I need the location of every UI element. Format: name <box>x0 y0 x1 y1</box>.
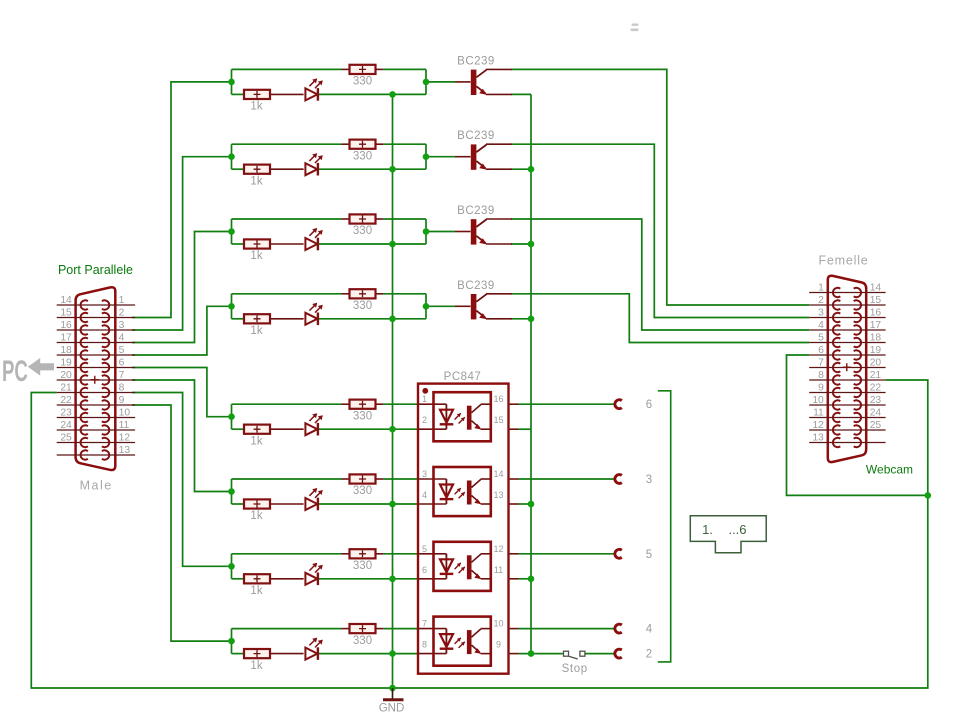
male DB25 separator row 4 <box>57 342 135 344</box>
node GND bus junction row 8 <box>389 650 396 657</box>
svg-text:1k: 1k <box>250 101 262 113</box>
svg-text:19: 19 <box>60 358 72 369</box>
wire row 3 top branch <box>232 218 342 220</box>
svg-text:6: 6 <box>422 565 427 575</box>
wire row 8 top branch right <box>383 628 418 630</box>
svg-text:12: 12 <box>812 420 824 431</box>
wire male pin 6 to row 5 input <box>132 368 232 417</box>
wire Femelle pin 6 link <box>787 355 928 495</box>
wire row 8 resistor 330 left stub <box>342 628 350 630</box>
wire emitter/output bus vertical <box>530 94 532 653</box>
cable bracket <box>658 391 671 662</box>
svg-text:8: 8 <box>818 370 824 381</box>
svg-text:12: 12 <box>493 544 503 554</box>
svg-text:GND: GND <box>379 703 405 715</box>
wire row 2 right junction vertical <box>425 144 427 169</box>
male DB25 separator row 8 <box>57 392 135 394</box>
svg-text:4: 4 <box>646 624 653 636</box>
svg-text:16: 16 <box>870 308 882 319</box>
svg-text:Port Parallele: Port Parallele <box>58 263 133 277</box>
svg-text:330: 330 <box>353 300 372 312</box>
wire row 3 right junction vertical <box>425 219 427 244</box>
LED D7 <box>305 563 322 585</box>
svg-text:7: 7 <box>119 370 125 381</box>
svg-text:PC847: PC847 <box>444 371 482 383</box>
socket terminal 2 <box>615 649 652 661</box>
svg-text:7: 7 <box>422 619 427 629</box>
svg-text:9: 9 <box>818 383 824 394</box>
svg-text:15: 15 <box>60 308 72 319</box>
wire row 2 resistor 330 right stub <box>375 143 383 145</box>
svg-text:14: 14 <box>870 283 882 294</box>
wire Q4 collector to Femelle pin 5 <box>511 294 809 343</box>
svg-text:22: 22 <box>870 383 882 394</box>
wire row 6 bottom branch left <box>232 503 245 505</box>
svg-text:12: 12 <box>119 433 131 444</box>
LED D8 <box>305 638 322 660</box>
wire opto channel 2 pin line bottom (into PC847) <box>418 503 446 505</box>
wire opto channel 4 output bottom stub <box>509 653 519 655</box>
wire row 1 resistor 330 right stub <box>375 68 383 70</box>
wire row 7 top branch right <box>383 553 418 555</box>
svg-text:11: 11 <box>494 565 503 575</box>
femelle DB25 separator row 3 <box>809 317 885 319</box>
wire opto channel 3 pin line top (into PC847) <box>418 553 446 555</box>
wire opto output to socket 6 <box>519 403 616 405</box>
wire row 4 bottom branch left <box>232 318 245 320</box>
resistor 1k row 2 <box>244 165 270 188</box>
wire transistor Q3 base <box>426 231 455 233</box>
wire opto channel 4 pin line bottom (into PC847) <box>418 653 446 655</box>
svg-text:17: 17 <box>870 320 882 331</box>
resistor 330 row 4 <box>350 289 376 312</box>
svg-text:16: 16 <box>60 320 72 331</box>
wire row 7 resistor 330 left stub <box>342 553 350 555</box>
svg-text:3: 3 <box>646 474 652 486</box>
wire row 2 bottom branch right <box>318 168 427 170</box>
wire row 3 bottom branch left <box>232 243 245 245</box>
wire opto channel 1 pin line bottom (into PC847) <box>418 428 446 430</box>
femelle DB25 separator row 11 <box>809 417 885 419</box>
svg-text:25: 25 <box>870 420 882 431</box>
svg-text:BC239: BC239 <box>457 205 495 217</box>
svg-text:6: 6 <box>818 345 824 356</box>
resistor 1k row 8 <box>244 649 270 672</box>
resistor 330 row 7 <box>350 549 376 572</box>
wire row 8 bottom branch left <box>232 653 245 655</box>
wire male pin 7 to row 6 input <box>132 380 232 492</box>
node emitter/output bus junction <box>528 166 535 173</box>
male DB25 separator row 7 <box>57 379 135 381</box>
svg-text:1: 1 <box>119 295 125 306</box>
wire opto pin9 to Stop switch <box>519 653 563 655</box>
wire male pin 3 to row 2 input <box>132 157 232 330</box>
femelle DB25 separator row 13 <box>809 442 885 444</box>
wire male pin 9 to row 8 input <box>132 405 232 641</box>
wire row 4 resistor 330 left stub <box>342 293 350 295</box>
femelle DB25 separator row 4 <box>809 329 885 331</box>
switch S1 Stop <box>562 651 588 675</box>
wire row 6 bottom branch right <box>318 503 419 505</box>
wire opto output to socket 5 <box>519 553 616 555</box>
svg-text:25: 25 <box>60 433 72 444</box>
node row 3 right junction dot <box>423 228 430 235</box>
transistor Q1 BC239 <box>457 55 512 95</box>
node row 2 right junction dot <box>423 153 430 160</box>
wire opto channel 3 pin line bottom (into PC847) <box>418 578 446 580</box>
wire Q1 collector to Femelle pin 2 <box>511 69 809 305</box>
wire row 4 top branch right <box>383 293 426 295</box>
wire opto channel 2 output top stub <box>509 478 519 480</box>
svg-text:2: 2 <box>646 649 652 661</box>
svg-text:1k: 1k <box>250 585 262 597</box>
wire Q3 collector to Femelle pin 4 <box>511 219 809 330</box>
resistor 330 row 1 <box>350 65 376 88</box>
wire opto channel 4 pin line top (into PC847) <box>418 628 446 630</box>
femelle DB25 separator row 2 <box>809 304 885 306</box>
femelle DB25 separator row 5 <box>809 342 885 344</box>
LED D5 <box>305 413 322 435</box>
wire Femelle pin 21 link <box>886 380 928 495</box>
svg-text:BC239: BC239 <box>457 130 495 142</box>
wire GND tap <box>392 688 394 693</box>
svg-text:2: 2 <box>818 295 824 306</box>
femelle DB25 separator row 8 <box>809 379 885 381</box>
resistor 1k row 3 <box>244 239 270 262</box>
svg-text:7: 7 <box>818 358 824 369</box>
wire row 3 resistor 330 right stub <box>375 218 383 220</box>
wire opto channel 3 output bottom stub <box>509 578 519 580</box>
resistor 330 row 6 <box>350 474 376 497</box>
node row 4 right junction dot <box>423 303 430 310</box>
node GND bus junction row 7 <box>389 576 396 583</box>
svg-text:11: 11 <box>813 408 824 419</box>
wire transistor Q2 base <box>426 156 455 158</box>
svg-text:8: 8 <box>119 383 125 394</box>
node GND bus junction row 1 <box>389 91 396 98</box>
wire Q2 collector to Femelle pin 3 <box>511 144 809 317</box>
transistor Q4 BC239 <box>457 280 512 320</box>
femelle DB25 separator row 1 <box>809 292 885 294</box>
node GND bus junction row 6 <box>389 501 396 508</box>
node GND bus junction row 4 <box>389 316 396 323</box>
wire row 8 top branch <box>232 628 342 630</box>
femelle DB25 separator row 7 <box>809 367 885 369</box>
wire row 4 right junction vertical <box>425 294 427 319</box>
transistor Q3 BC239 <box>457 205 512 245</box>
wire row 5 bottom branch right <box>318 428 419 430</box>
wire row 7 bottom branch left <box>232 578 245 580</box>
socket terminal 5 <box>615 549 652 561</box>
svg-text:330: 330 <box>353 635 372 647</box>
svg-text:2: 2 <box>119 308 125 319</box>
socket terminal 4 <box>615 624 653 636</box>
svg-text:PC: PC <box>2 355 28 389</box>
svg-text:330: 330 <box>353 410 372 422</box>
svg-text:4: 4 <box>818 320 824 331</box>
svg-text:6: 6 <box>646 399 652 411</box>
wire row 3 resistor-to-LED segment <box>270 243 304 245</box>
wire row 1 bottom branch left <box>232 93 245 95</box>
wire row 2 resistor 330 left stub <box>342 143 350 145</box>
wire opto channel 1 output bottom stub <box>509 428 519 430</box>
wire opto channel 2 pin line top (into PC847) <box>418 478 446 480</box>
node row 7 left junction split <box>231 554 233 579</box>
wire row 6 resistor-to-LED segment <box>270 503 304 505</box>
male DB25 separator row 10 <box>57 417 135 419</box>
svg-text:11: 11 <box>119 420 130 431</box>
svg-text:1k: 1k <box>250 250 262 262</box>
resistor 1k row 5 <box>244 425 270 448</box>
LED D1 <box>305 78 322 100</box>
wire Stop switch to socket 2 <box>585 653 615 655</box>
node row 5 left junction dot <box>228 413 235 420</box>
wire row 1 resistor-to-LED segment <box>270 93 304 95</box>
male DB25 contacts <box>81 300 110 459</box>
wire row 3 top branch right <box>383 218 426 220</box>
wire transistor Q4 base stub <box>455 305 471 307</box>
svg-text:Femelle: Femelle <box>818 254 868 268</box>
male DB25 separator row 3 <box>57 329 135 331</box>
ground GND <box>379 688 405 715</box>
svg-text:10: 10 <box>812 395 824 406</box>
wire opto channel 1 pin line top (into PC847) <box>418 403 446 405</box>
svg-text:24: 24 <box>870 408 882 419</box>
svg-text:22: 22 <box>60 395 72 406</box>
node row 8 left junction split <box>231 629 233 654</box>
wire row 5 resistor 330 left stub <box>342 403 350 405</box>
svg-text:16: 16 <box>493 394 503 404</box>
node row 3 left junction split <box>231 219 233 244</box>
svg-text:20: 20 <box>60 370 72 381</box>
connector J2 femelle DB25 body <box>828 276 866 462</box>
wire male pin 8 to row 7 input <box>132 393 232 567</box>
wire male pin 2 to row 1 input <box>132 82 232 318</box>
femelle DB25 separator row 12 <box>809 429 885 431</box>
svg-text:5: 5 <box>818 333 824 344</box>
svg-text:17: 17 <box>60 333 72 344</box>
node GND bus junction row 2 <box>389 166 396 173</box>
connector J1 male DB25 body <box>76 287 116 470</box>
resistor 330 row 3 <box>350 214 376 237</box>
svg-text:15: 15 <box>493 415 503 425</box>
wire row 4 resistor 330 right stub <box>375 293 383 295</box>
male DB25 separator row 2 <box>57 317 135 319</box>
wire Q3 emitter to bus <box>511 243 531 245</box>
wire opto output to socket 4 <box>519 628 616 630</box>
male DB25 separator row 12 <box>57 442 135 444</box>
optocoupler channel 4 (pins 7/8 - 10/9) <box>422 617 504 666</box>
node row 1 right junction dot <box>423 79 430 86</box>
LED D4 <box>305 303 322 325</box>
node emitter/output bus junction <box>528 501 535 508</box>
svg-text:5: 5 <box>646 549 652 561</box>
svg-text:4: 4 <box>119 333 125 344</box>
wire transistor Q1 base stub <box>455 81 471 83</box>
node emitter/output bus junction <box>528 241 535 248</box>
svg-text:2: 2 <box>422 415 427 425</box>
svg-text:14: 14 <box>60 295 72 306</box>
wire row 2 top branch right <box>383 143 426 145</box>
artifact speck <box>631 24 639 32</box>
svg-text:330: 330 <box>353 76 372 88</box>
wire opto channel 4 output top stub <box>509 628 519 630</box>
wire row 1 bottom branch right <box>318 93 427 95</box>
femelle DB25 contacts <box>833 288 861 447</box>
svg-text:1k: 1k <box>250 325 262 337</box>
male DB25 pin numbers <box>60 295 130 456</box>
svg-text:8: 8 <box>422 640 427 650</box>
optocoupler U1 PC847 outer box <box>418 384 509 674</box>
svg-text:1k: 1k <box>250 175 262 187</box>
male DB25 separator row 5 <box>57 354 135 356</box>
svg-text:1: 1 <box>422 394 427 404</box>
svg-text:330: 330 <box>353 560 372 572</box>
wire row 8 bottom branch right <box>318 653 419 655</box>
wire transistor Q3 base stub <box>455 231 471 233</box>
svg-text:23: 23 <box>60 408 72 419</box>
wire row 6 resistor 330 right stub <box>375 478 383 480</box>
svg-text:1: 1 <box>818 283 824 294</box>
svg-text:20: 20 <box>870 358 882 369</box>
node row 6 left junction dot <box>228 488 235 495</box>
resistor 1k row 1 <box>244 90 270 113</box>
wire opto pin11 to bus <box>519 578 532 580</box>
svg-text:Webcam: Webcam <box>866 463 913 477</box>
node emitter/output bus junction <box>528 316 535 323</box>
wire Q4 emitter to bus <box>511 318 531 320</box>
svg-text:24: 24 <box>60 420 72 431</box>
svg-text:9: 9 <box>496 640 501 650</box>
svg-text:10: 10 <box>493 619 503 629</box>
wire row 4 top branch <box>232 293 342 295</box>
LED D6 <box>305 488 322 510</box>
wire male pin 5 to row 4 input <box>132 306 232 355</box>
wire row 2 resistor-to-LED segment <box>270 168 304 170</box>
wire Q2 emitter to bus <box>511 168 531 170</box>
femelle DB25 separator row 6 <box>809 354 885 356</box>
wire row 1 top branch right <box>383 68 426 70</box>
wire row 5 resistor-to-LED segment <box>270 428 304 430</box>
PC847 pin-1 marker <box>422 388 428 394</box>
resistor 330 row 5 <box>350 400 376 423</box>
optocoupler channel 2 (pins 3/4 - 14/13) <box>422 467 504 516</box>
svg-text:21: 21 <box>60 383 72 394</box>
optocoupler channel 1 (pins 1/2 - 16/15) <box>422 392 504 441</box>
transistor Q2 BC239 <box>457 130 512 170</box>
wire row 8 resistor 330 right stub <box>375 628 383 630</box>
wire row 5 bottom branch left <box>232 428 245 430</box>
svg-text:BC239: BC239 <box>457 55 495 67</box>
svg-text:Male: Male <box>80 479 113 493</box>
wire opto pin15 to bus <box>519 428 532 430</box>
resistor 1k row 4 <box>244 314 270 337</box>
wire row 7 top branch <box>232 553 342 555</box>
svg-text:330: 330 <box>353 150 372 162</box>
svg-text:4: 4 <box>422 490 427 500</box>
node row 4 left junction dot <box>228 303 235 310</box>
svg-text:10: 10 <box>119 408 131 419</box>
wire GND bus vertical <box>392 94 394 688</box>
wire row 3 resistor 330 left stub <box>342 218 350 220</box>
wire row 4 resistor-to-LED segment <box>270 318 304 320</box>
node row 2 left junction dot <box>228 153 235 160</box>
wire row 5 top branch <box>232 403 342 405</box>
svg-text:19: 19 <box>870 345 882 356</box>
resistor 330 row 2 <box>350 140 376 163</box>
wire row 2 bottom branch left <box>232 168 245 170</box>
wire row 4 bottom branch right <box>318 318 427 320</box>
femelle DB25 separator row 10 <box>809 404 885 406</box>
wire row 7 resistor 330 right stub <box>375 553 383 555</box>
node row 2 left junction split <box>231 144 233 169</box>
wire row 5 resistor 330 right stub <box>375 403 383 405</box>
svg-text:1k: 1k <box>250 510 262 522</box>
wire opto pin13 to bus <box>519 503 532 505</box>
wire row 3 bottom branch right <box>318 243 427 245</box>
node row 1 left junction dot <box>228 79 235 86</box>
wire opto output to socket 3 <box>519 478 616 480</box>
wire row 2 top branch <box>232 143 342 145</box>
node ground loop junction <box>925 492 932 499</box>
wire opto channel 2 output bottom stub <box>509 503 519 505</box>
wire opto channel 1 output top stub <box>509 403 519 405</box>
svg-text:...6: ...6 <box>728 522 746 537</box>
wire male pin 21 / ground loop <box>31 393 928 689</box>
svg-text:330: 330 <box>353 225 372 237</box>
svg-text:3: 3 <box>119 320 125 331</box>
wire row 8 resistor-to-LED segment <box>270 653 304 655</box>
male DB25 separator row 6 <box>57 367 135 369</box>
svg-text:3: 3 <box>422 469 427 479</box>
node row 3 left junction dot <box>228 228 235 235</box>
LED D3 <box>305 228 322 250</box>
wire transistor Q2 base stub <box>455 156 471 158</box>
svg-text:1k: 1k <box>250 435 262 447</box>
node row 6 left junction split <box>231 479 233 504</box>
wire row 7 bottom branch right <box>318 578 419 580</box>
node GND bus junction row 5 <box>389 426 396 433</box>
femelle DB25 pin numbers <box>812 283 881 444</box>
node row 7 left junction dot <box>228 563 235 570</box>
node row 8 left junction dot <box>228 638 235 645</box>
wire row 6 resistor 330 left stub <box>342 478 350 480</box>
optocoupler channel 3 (pins 5/6 - 12/11) <box>422 542 504 591</box>
svg-text:14: 14 <box>493 469 503 479</box>
svg-text:13: 13 <box>812 433 824 444</box>
resistor 1k row 6 <box>244 499 270 522</box>
svg-text:3: 3 <box>818 308 824 319</box>
femelle DB25 separator row 9 <box>809 392 885 394</box>
connector block 1...6 <box>690 516 766 553</box>
wire male pin 4 to row 3 input <box>132 232 232 343</box>
wire row 1 top branch <box>232 68 342 70</box>
svg-text:13: 13 <box>493 490 503 500</box>
male DB25 separator row 1 <box>57 304 135 306</box>
svg-text:6: 6 <box>119 358 125 369</box>
svg-text:15: 15 <box>870 295 882 306</box>
node GND bus bottom junction <box>389 685 396 692</box>
node row 1 left junction split <box>231 69 233 94</box>
wire transistor Q1 base <box>426 81 455 83</box>
svg-text:21: 21 <box>870 370 882 381</box>
svg-text:5: 5 <box>422 544 427 554</box>
male DB25 separator row 13 <box>57 454 135 456</box>
svg-text:1.: 1. <box>702 522 713 537</box>
socket terminal 3 <box>615 474 652 486</box>
wire row 7 resistor-to-LED segment <box>270 578 304 580</box>
LED D2 <box>305 153 322 175</box>
